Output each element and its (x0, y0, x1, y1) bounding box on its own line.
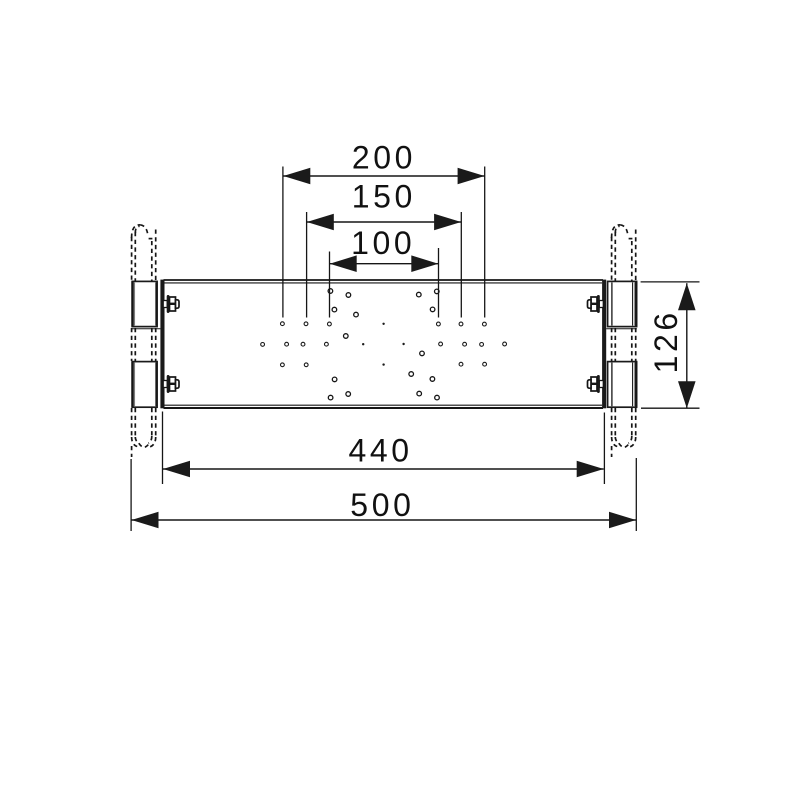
svg-text:200: 200 (352, 140, 416, 176)
svg-text:126: 126 (648, 309, 684, 373)
svg-text:440: 440 (348, 433, 412, 469)
svg-text:100: 100 (351, 225, 415, 261)
svg-text:150: 150 (352, 179, 416, 215)
svg-text:500: 500 (350, 487, 414, 523)
